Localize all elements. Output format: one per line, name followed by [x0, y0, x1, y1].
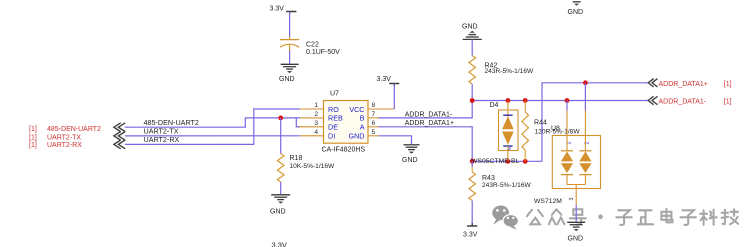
port label ADDR_DATA1+ (red) — [659, 81, 732, 88]
pin 6 — [368, 120, 379, 127]
svg-text:UART2-RX: UART2-RX — [47, 142, 82, 149]
label R44 value — [534, 119, 580, 135]
svg-text:GND: GND — [568, 9, 584, 16]
junction (U8 pin2 / A) — [583, 80, 588, 85]
svg-text:ADDR_DATA1+: ADDR_DATA1+ — [405, 120, 454, 127]
svg-text:DI: DI — [328, 132, 335, 141]
resistor R43 — [469, 161, 476, 200]
chip U7 — [324, 91, 369, 144]
TVS D4 — [490, 101, 519, 162]
svg-text:ADDR_DATA1-: ADDR_DATA1- — [405, 111, 453, 118]
svg-text:3.3V: 3.3V — [463, 231, 478, 238]
svg-text:GND: GND — [279, 76, 295, 83]
pin 4 — [300, 129, 324, 136]
svg-text:GND: GND — [349, 132, 365, 141]
wire — [280, 118, 282, 154]
svg-text:3: 3 — [314, 120, 318, 127]
junction (D4 bottom) — [506, 159, 511, 164]
svg-text:3.3V: 3.3V — [272, 241, 287, 247]
svg-text:GND: GND — [270, 209, 286, 216]
junction (A / R43) — [470, 159, 475, 164]
wire UART2-RX — [125, 109, 300, 144]
wire 485-DEN-UART2 — [125, 118, 300, 127]
ground (R18) — [270, 195, 290, 216]
pin 8 — [368, 102, 394, 109]
port label UART2-RX (red) — [29, 142, 82, 149]
sheet entry chevrons left — [114, 123, 125, 149]
svg-text:5: 5 — [372, 129, 376, 136]
svg-text:485-DEN-UART2: 485-DEN-UART2 — [47, 126, 101, 133]
resistor R44 — [522, 101, 529, 162]
svg-text:VCC: VCC — [349, 105, 364, 114]
svg-text:3.3V: 3.3V — [377, 76, 392, 83]
resistor R42 — [469, 56, 476, 85]
wire UART2-TX — [125, 135, 300, 137]
watermark wechat icon — [492, 206, 518, 230]
port label UART2-TX (red) — [29, 134, 81, 141]
wire (pin5 to gnd) — [379, 136, 412, 144]
junction (D4 top) — [506, 98, 511, 103]
power 3.3V (pin8) — [377, 76, 400, 87]
svg-text:R44: R44 — [534, 119, 547, 126]
svg-text:2: 2 — [314, 111, 318, 118]
svg-text:CA-IF4820HS: CA-IF4820HS — [322, 147, 366, 154]
svg-text:10K-5%-1/16W: 10K-5%-1/16W — [290, 163, 335, 170]
svg-text:UART2-RX: UART2-RX — [144, 135, 180, 144]
svg-text:[1]: [1] — [29, 126, 37, 133]
ground (top, above R42) — [462, 24, 482, 40]
svg-text:B: B — [360, 114, 365, 123]
svg-text:DE: DE — [328, 123, 338, 132]
wire — [471, 84, 473, 101]
svg-text:243R-5%-1/16W: 243R-5%-1/16W — [485, 68, 535, 75]
svg-text:D4: D4 — [490, 102, 499, 109]
svg-text:ADDR_DATA1-: ADDR_DATA1- — [659, 99, 707, 106]
svg-text:REB: REB — [328, 114, 343, 123]
svg-text:UART2-TX: UART2-TX — [47, 134, 81, 141]
wire — [289, 51, 291, 64]
svg-text:N: N — [507, 147, 512, 150]
svg-text:RO: RO — [328, 105, 339, 114]
port label ADDR_DATA1- (red) — [659, 99, 732, 106]
wire — [289, 12, 291, 37]
wire — [393, 84, 395, 110]
resistor R18 — [277, 154, 284, 183]
diode array U8 — [551, 83, 601, 201]
svg-text:GND: GND — [402, 157, 418, 164]
wire ADDR_DATA1- (pin7) — [379, 101, 473, 118]
svg-text:[1]: [1] — [29, 142, 37, 149]
svg-text:ADDR_DATA1+: ADDR_DATA1+ — [659, 81, 708, 88]
ground (C22) — [279, 64, 299, 83]
label C22 value — [306, 42, 340, 57]
label R42 value — [485, 63, 535, 75]
svg-text:GND: GND — [462, 24, 478, 31]
wire bus B (y=100.5) — [472, 100, 648, 102]
svg-text:WS05CTME-BL: WS05CTME-BL — [471, 158, 520, 165]
junction (R44 top) — [523, 98, 528, 103]
svg-text:R18: R18 — [290, 155, 303, 162]
pin 3 — [297, 120, 324, 127]
wire — [575, 189, 577, 222]
wire — [471, 39, 473, 55]
wire — [280, 182, 282, 194]
junction (U8 pin1) — [565, 98, 570, 103]
pin 5 — [368, 129, 379, 136]
svg-text:3.3V: 3.3V — [270, 6, 285, 13]
wire — [471, 201, 473, 227]
svg-text:[1]: [1] — [724, 81, 732, 88]
ground (pin5) — [402, 145, 420, 164]
port label 485-DEN-UART2 (red) — [29, 126, 101, 133]
svg-text:U7: U7 — [330, 91, 339, 98]
svg-text:GND: GND — [568, 236, 584, 243]
power 3.3V (bottom R43) — [463, 223, 478, 238]
wire bus A (top, y=82.8) — [472, 83, 648, 162]
svg-text:0.1UF-50V: 0.1UF-50V — [306, 49, 340, 56]
svg-text:A: A — [360, 123, 365, 132]
svg-text:WS712M: WS712M — [534, 198, 562, 205]
pin 7 — [368, 111, 379, 118]
svg-text:R43: R43 — [482, 175, 495, 182]
label R18 value — [290, 155, 335, 170]
svg-text:3: 3 — [569, 198, 575, 201]
ground (U8) — [567, 222, 585, 242]
junction (DEN/R18) — [278, 116, 283, 121]
svg-text:1: 1 — [314, 102, 318, 109]
svg-text:8: 8 — [372, 102, 376, 109]
svg-text:243R-5%-1/16W: 243R-5%-1/16W — [482, 182, 532, 189]
watermark text (vector strokes for CJK) — [527, 209, 738, 225]
junction (R42/B) — [470, 98, 475, 103]
svg-text:[1]: [1] — [724, 99, 732, 106]
svg-text:4: 4 — [314, 129, 318, 136]
label R43 value — [482, 175, 532, 189]
power 3.3V (top, C22) — [270, 6, 297, 15]
pin 2 — [300, 111, 324, 118]
svg-text:6: 6 — [372, 120, 376, 127]
sheet entry chevrons right — [648, 79, 657, 105]
capacitor C22 — [280, 37, 299, 51]
wire ADDR_DATA1+ (pin6) — [379, 127, 473, 162]
pin 1 — [300, 102, 324, 109]
svg-text:U8: U8 — [551, 125, 560, 132]
ground (top edge, partial) — [568, 2, 584, 16]
svg-text:[1]: [1] — [29, 134, 37, 141]
svg-text:C22: C22 — [306, 42, 319, 49]
junction (R44 bottom) — [523, 159, 528, 164]
svg-text:7: 7 — [372, 111, 376, 118]
